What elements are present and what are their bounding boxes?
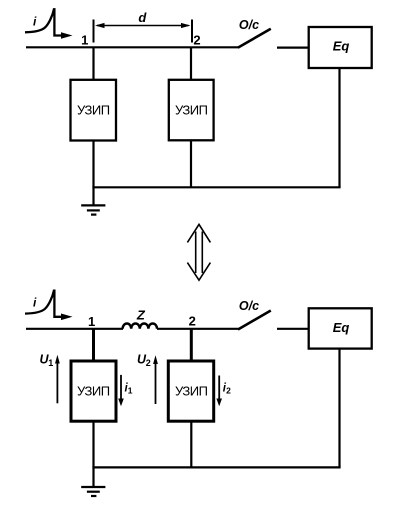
svg-text:1: 1 <box>81 33 88 48</box>
wire: ground bus (top) <box>92 186 340 188</box>
switch O/c blade (top) <box>238 29 271 48</box>
svg-text:Z: Z <box>136 308 146 323</box>
voltage arrow U1 <box>55 355 60 404</box>
wire: ground stem (bottom) <box>92 467 94 487</box>
wire: top-left SPD to ground bus <box>92 141 94 188</box>
inductor Z <box>123 323 157 328</box>
svg-text:O/c: O/c <box>239 299 259 313</box>
wire: bottom rail right of inductor <box>157 328 239 330</box>
svg-text:2: 2 <box>189 314 196 329</box>
SPD box УЗИП (bottom right) <box>168 361 213 421</box>
impulse current symbol (top) <box>25 9 73 39</box>
SPD box УЗИП (bottom left) <box>71 361 116 421</box>
svg-text:1: 1 <box>48 358 53 368</box>
wire: node 1 drop (bottom) <box>92 329 95 362</box>
dimension tick at node 1 <box>93 20 95 43</box>
wire: ground bus (bottom) <box>92 466 340 468</box>
svg-text:Eq: Eq <box>333 39 350 54</box>
wire: bottom-right SPD to ground bus <box>190 421 192 467</box>
voltage arrow U2 <box>153 355 158 404</box>
impulse current symbol (bottom) <box>25 291 73 321</box>
wire: bottom rail left of inductor <box>26 328 123 330</box>
svg-text:2: 2 <box>146 358 151 368</box>
equipment box Eq (bottom) <box>309 308 372 348</box>
svg-text:Eq: Eq <box>333 320 350 335</box>
svg-text:d: d <box>138 10 147 25</box>
wire: node 2 drop (bottom) <box>190 329 193 362</box>
wire: node 1 drop (top) <box>92 47 94 80</box>
svg-text:2: 2 <box>193 32 200 47</box>
svg-text:УЗИП: УЗИП <box>175 103 208 118</box>
wire: node 2 drop (top) <box>190 47 192 80</box>
svg-text:O/c: O/c <box>239 18 259 32</box>
current arrow i1 <box>118 375 124 406</box>
svg-text:УЗИП: УЗИП <box>175 384 208 399</box>
wire: ground stem (top) <box>92 187 94 205</box>
wire: top-right SPD to ground bus <box>190 141 192 188</box>
wire: top main rail <box>26 46 239 48</box>
ground symbol (top) <box>81 205 105 214</box>
wire: switch to Eq box (bottom) <box>277 328 309 330</box>
equipment box Eq (top) <box>309 27 372 68</box>
svg-text:УЗИП: УЗИП <box>77 103 110 118</box>
wire: bottom-left SPD to ground bus <box>92 421 94 467</box>
SPD box УЗИП (top right) <box>169 80 214 141</box>
current arrow i2 <box>216 376 222 407</box>
ground symbol (bottom) <box>81 487 105 496</box>
switch O/c blade (bottom) <box>238 311 271 330</box>
svg-text:УЗИП: УЗИП <box>77 384 110 399</box>
wire: switch to Eq box (top) <box>277 46 309 48</box>
dimension tick at node 2 <box>191 20 193 43</box>
svg-text:1: 1 <box>88 314 95 329</box>
double-headed vertical arrow <box>187 224 210 280</box>
svg-text:1: 1 <box>128 386 133 396</box>
wire: Eq down to ground bus (top) <box>338 68 340 187</box>
svg-text:2: 2 <box>226 386 231 396</box>
dimension arrow d <box>95 23 191 28</box>
SPD box УЗИП (top left) <box>71 80 117 141</box>
wire: Eq down to ground bus (bottom) <box>338 349 340 468</box>
